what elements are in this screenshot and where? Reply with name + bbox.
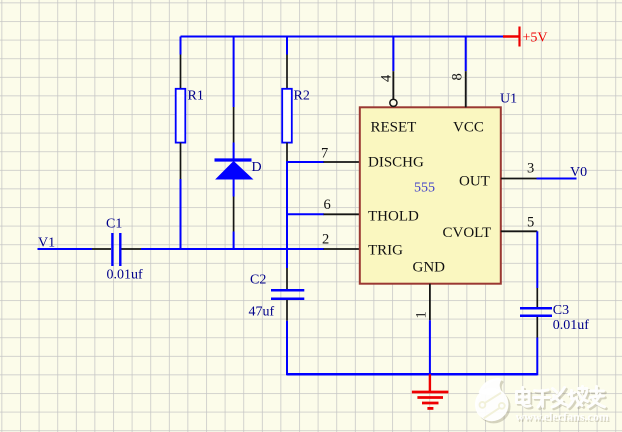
svg-text:0.01uf: 0.01uf [553, 318, 590, 333]
svg-text:GND: GND [413, 259, 446, 275]
svg-text:47uf: 47uf [249, 305, 275, 320]
wire C2 top (junction to lead) [286, 249, 288, 268]
wire R2 top (rail to lead) [286, 37, 288, 55]
ground [412, 374, 449, 408]
svg-text:0.01uf: 0.01uf [107, 268, 144, 283]
wire pin4 from rail [392, 37, 394, 72]
pin lead D anode [233, 197, 235, 232]
pin 1 GND stub [429, 284, 431, 321]
capacitor C2 [249, 273, 305, 320]
pin 4 RESET stub [392, 71, 394, 99]
svg-text:R2: R2 [294, 89, 310, 104]
svg-text:2: 2 [322, 232, 329, 248]
wire R1 top (rail to lead) [180, 37, 182, 55]
pin lead R2 top [286, 55, 288, 90]
wire V1 to C1 [38, 248, 93, 250]
svg-text:C2: C2 [250, 273, 266, 288]
pin lead C1 right [122, 248, 142, 250]
svg-text:7: 7 [321, 146, 328, 162]
svg-text:U1: U1 [500, 92, 517, 107]
wire C2 to bottom rail [286, 321, 288, 376]
wire top +5V rail [181, 36, 504, 38]
svg-text:6: 6 [324, 197, 331, 213]
wire pin7 horizontal [286, 161, 324, 163]
wire node DISCHG vertical (pin7 to pin2 net) [286, 162, 288, 250]
pin lead C3 top [536, 288, 538, 307]
pin 4 inversion bubble [390, 99, 397, 106]
wire pin8 from rail [465, 37, 467, 72]
pin 6 THOLD stub [324, 213, 361, 215]
svg-text:OUT: OUT [459, 174, 490, 190]
svg-text:555: 555 [414, 181, 435, 196]
svg-text:1: 1 [414, 311, 430, 318]
IC U1 555 [360, 92, 517, 284]
wire D anode to V1 net [233, 232, 235, 251]
svg-text:8: 8 [450, 73, 466, 80]
pin 2 TRIG stub [324, 248, 361, 250]
pin lead C2 top [286, 268, 288, 289]
pin 5 CVOLT stub [501, 230, 538, 232]
svg-text:www.elecfans.com: www.elecfans.com [516, 410, 609, 424]
watermark logo elecfans [475, 378, 511, 423]
svg-text:THOLD: THOLD [368, 208, 419, 224]
svg-text:D: D [252, 160, 262, 175]
pin lead D cathode [233, 107, 235, 143]
wire OUT to V0 [537, 178, 577, 180]
capacitor C1 [106, 217, 143, 283]
pin lead C3 bottom [536, 317, 538, 338]
pin lead C2 bottom [286, 300, 288, 321]
svg-text:4: 4 [379, 74, 395, 82]
svg-text:RESET: RESET [371, 119, 417, 135]
power +5V [503, 27, 548, 47]
svg-text:5: 5 [527, 215, 534, 231]
resistor R2 [282, 89, 310, 143]
wire diode top (rail down) [233, 37, 235, 108]
svg-text:DISCHG: DISCHG [368, 154, 424, 170]
pin 8 VCC stub [465, 71, 467, 107]
wire pin6 horizontal [286, 213, 324, 215]
wire bottom rail [287, 373, 537, 376]
svg-text:TRIG: TRIG [368, 242, 403, 258]
pin lead R1 top [180, 55, 182, 90]
wire R1 bottom to V1 net [180, 179, 182, 250]
svg-text:3: 3 [527, 161, 534, 177]
watermark text 电子发烧友 [517, 387, 607, 409]
svg-text:+5V: +5V [523, 31, 548, 46]
pin lead R2 bottom [286, 143, 288, 162]
wire CVOLT down to C3 [536, 231, 538, 288]
svg-text:VCC: VCC [453, 119, 484, 135]
wire C3 to bottom rail [536, 338, 538, 376]
capacitor C3 [520, 303, 589, 333]
svg-text:V0: V0 [570, 165, 587, 180]
wire GND pin to bottom rail [429, 320, 431, 374]
pin 3 OUT stub [501, 178, 537, 180]
diode D [215, 143, 262, 197]
watermark text www.elecfans.com [516, 410, 611, 425]
wire C1 to TRIG (pin2 net) [141, 248, 324, 250]
resistor R1 [176, 89, 204, 143]
svg-text:C3: C3 [553, 303, 569, 318]
pin lead R1 bottom [180, 143, 182, 179]
svg-text:C1: C1 [106, 217, 122, 232]
svg-text:R1: R1 [188, 89, 204, 104]
svg-text:CVOLT: CVOLT [443, 225, 492, 241]
pin 7 DISCHG stub [324, 161, 361, 163]
pin lead C1 left [92, 248, 111, 250]
